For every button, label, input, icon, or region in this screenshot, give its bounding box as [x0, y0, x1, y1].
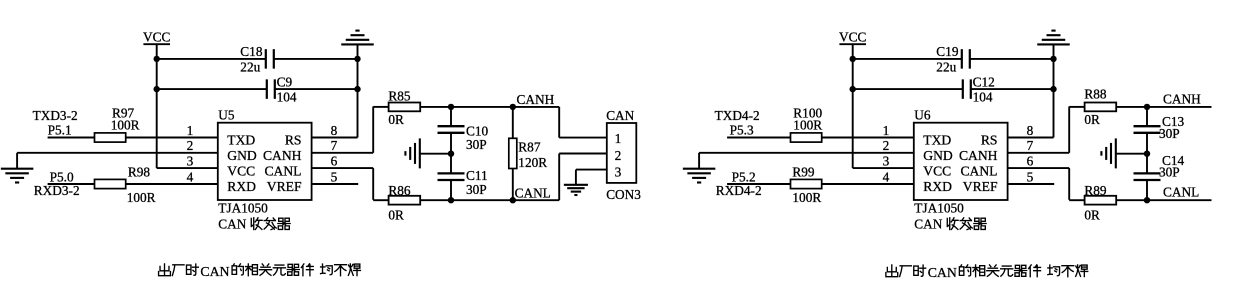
power port VCC (right) [839, 30, 866, 45]
svg-text:8: 8 [331, 123, 338, 138]
net label RXD3-2 [34, 183, 80, 198]
pin number 5 [331, 169, 338, 184]
svg-text:0R: 0R [388, 208, 404, 223]
junction CANH-C10 [448, 104, 454, 110]
svg-text:2: 2 [187, 138, 194, 153]
svg-text:R86: R86 [388, 183, 411, 198]
svg-text:TXD: TXD [227, 133, 255, 148]
ground (top, inverted earth) [341, 31, 374, 45]
svg-text:4: 4 [883, 169, 890, 184]
svg-text:100R: 100R [127, 190, 156, 205]
svg-text:GND: GND [227, 148, 257, 163]
svg-text:2: 2 [883, 138, 890, 153]
svg-text:P5.1: P5.1 [48, 123, 72, 138]
svg-text:7: 7 [331, 138, 338, 153]
pin number 2 [883, 138, 890, 153]
svg-text:CAN: CAN [218, 216, 246, 231]
wire pin3 VCC [157, 167, 218, 169]
caption right: 出厂时CAN的相关元器件 均不焊 [886, 265, 1088, 280]
ground (sideways earth, right filter) [1101, 138, 1115, 168]
svg-text:TJA1050: TJA1050 [914, 200, 964, 215]
net label RXD4-2 [716, 183, 762, 198]
junction CANH-R87 [510, 104, 516, 110]
svg-text:120R: 120R [518, 155, 547, 170]
connector pin 1 label [615, 131, 622, 146]
power port VCC (left) [143, 30, 170, 45]
wire CANL right circuit [1069, 199, 1211, 201]
resistor R85 0R [388, 88, 420, 127]
wire row1 right [970, 58, 1054, 60]
junction VCC-row1 [154, 56, 160, 62]
svg-text:RS: RS [285, 133, 302, 148]
svg-text:100R: 100R [793, 118, 822, 133]
svg-text:1: 1 [615, 131, 622, 146]
svg-text:VCC: VCC [227, 163, 255, 178]
connector CON3 body [607, 123, 637, 183]
wire pin2 GND [17, 153, 218, 169]
svg-text:CANH: CANH [263, 148, 302, 163]
capacitor C13 30P [1134, 107, 1185, 154]
wire CANH (pin7 to connector) [373, 106, 559, 108]
junction VCC-row1 [850, 56, 856, 62]
designator U5 [218, 108, 235, 123]
wire row1 left (C19 left lead) [853, 58, 962, 60]
svg-text:0R: 0R [1084, 208, 1100, 223]
net label TXD4-2 [715, 108, 760, 123]
junction gnd-row1 [354, 56, 360, 62]
wire pin7 CANH up [312, 107, 374, 153]
svg-text:7: 7 [1027, 138, 1034, 153]
svg-text:C9: C9 [277, 75, 293, 90]
wire connector pin1 (from CANH) [559, 107, 607, 138]
svg-text:GND: GND [923, 148, 953, 163]
resistor R88 0R [1084, 86, 1116, 127]
wire row1 left (C18 left lead) [157, 58, 266, 60]
svg-text:CON3: CON3 [606, 187, 641, 202]
pin number 7 [331, 138, 338, 153]
ground (left) [1, 169, 34, 183]
wire pin4 RXD net RXD3-2 [48, 183, 218, 185]
svg-text:RS: RS [981, 133, 998, 148]
svg-text:100R: 100R [111, 118, 140, 133]
wire ground rail vertical to pin 8 [357, 44, 359, 137]
pin names left column (TXD GND VCC RXD) [923, 133, 953, 195]
svg-text:VCC: VCC [923, 163, 951, 178]
svg-text:30P: 30P [1159, 126, 1180, 141]
connector value CON3 [606, 187, 641, 202]
wire row2 right [275, 88, 358, 90]
junction VCC-row2 [154, 86, 160, 92]
net label CANL (right) [1163, 185, 1199, 200]
wire connector pin3 (to ground) [576, 170, 607, 185]
junction C10-C11 midpoint [448, 151, 454, 157]
wire pin3 VCC [853, 167, 914, 169]
svg-text:VCC: VCC [143, 30, 170, 45]
svg-text:4: 4 [187, 169, 194, 184]
pin number 1 [187, 123, 194, 138]
junction gnd-row2 [1050, 86, 1056, 92]
wire pin4 RXD net RXD4-2 [727, 183, 914, 185]
pin number 5 [1027, 169, 1034, 184]
op IC U5 TJA1050 CAN transceiver body [218, 123, 312, 200]
svg-text:1: 1 [883, 123, 890, 138]
wire pin5 VREF stub [1008, 183, 1055, 185]
pin number 6 [331, 153, 338, 168]
pin number 3 [187, 153, 194, 168]
capacitor C19 22u [936, 44, 970, 74]
junction C13-C14 midpoint [1144, 151, 1150, 157]
wire connector pin2 (to CANL) [559, 154, 607, 201]
svg-text:3: 3 [187, 153, 194, 168]
pin number 2 [187, 138, 194, 153]
capacitor C11 30P [438, 154, 488, 201]
ground (top, inverted earth) [1037, 31, 1070, 45]
net label CANH [517, 92, 555, 107]
pin number 4 [883, 169, 890, 184]
junction gnd-row2 [354, 86, 360, 92]
wire row2 left (C9 left lead) [157, 88, 267, 90]
net label P5.2 [732, 170, 756, 185]
svg-text:C12: C12 [973, 75, 995, 90]
svg-text:VREF: VREF [267, 179, 302, 194]
svg-text:3: 3 [883, 153, 890, 168]
svg-text:VCC: VCC [839, 30, 866, 45]
wire pin6 CANL down [1008, 168, 1070, 200]
resistor R86 0R [388, 183, 420, 223]
connector designator CAN [606, 108, 634, 123]
wire midpoint to earth (right) [1116, 153, 1147, 155]
pin number 8 [1027, 123, 1034, 138]
junction CANL-R87 [510, 197, 516, 203]
capacitor C10 30P [438, 107, 489, 154]
svg-text:0R: 0R [1084, 112, 1100, 127]
wire VCC rail vertical [156, 44, 158, 168]
svg-text:U5: U5 [218, 108, 235, 123]
svg-text:TJA1050: TJA1050 [218, 200, 268, 215]
ground (connector, small) [564, 185, 588, 195]
wire pin1 TXD net TXD4-2 [727, 137, 914, 139]
svg-text:CANL: CANL [960, 163, 997, 178]
svg-text:CANL: CANL [1163, 185, 1199, 200]
svg-text:RXD: RXD [227, 179, 256, 194]
svg-text:RXD4-2: RXD4-2 [716, 183, 762, 198]
svg-text:22u: 22u [936, 60, 956, 75]
svg-text:30P: 30P [1159, 165, 1180, 180]
svg-text:30P: 30P [466, 182, 487, 197]
svg-text:22u: 22u [240, 60, 260, 75]
capacitor C18 22u [240, 44, 273, 74]
wire pin7 CANH up [1008, 107, 1070, 153]
pin number 6 [1027, 153, 1034, 168]
pin names left column (TXD GND VCC RXD) [227, 133, 257, 195]
svg-text:CAN: CAN [200, 264, 229, 279]
svg-text:VREF: VREF [963, 179, 998, 194]
resistor R99 100R [791, 164, 822, 205]
net label P5.1 [48, 123, 72, 138]
svg-text:CANL: CANL [264, 163, 301, 178]
svg-text:TXD4-2: TXD4-2 [715, 108, 760, 123]
svg-text:U6: U6 [914, 108, 931, 123]
svg-text:CANH: CANH [517, 92, 555, 107]
wire midpoint to earth [420, 153, 451, 155]
svg-text:30P: 30P [466, 137, 487, 152]
svg-text:R89: R89 [1084, 183, 1107, 198]
part value TJA1050 [914, 200, 964, 215]
caption left: 出厂时CAN的相关元器件 均不焊 [159, 264, 361, 279]
svg-text:TXD3-2: TXD3-2 [33, 108, 78, 123]
designator U6 [914, 108, 931, 123]
pin names right column (RS CANH CANL VREF) [959, 133, 998, 195]
wire VCC rail vertical [852, 44, 854, 168]
svg-text:0R: 0R [388, 112, 404, 127]
svg-text:5: 5 [1027, 169, 1034, 184]
svg-text:P5.3: P5.3 [730, 123, 754, 138]
svg-text:CANL: CANL [515, 185, 551, 200]
svg-text:R98: R98 [128, 164, 151, 179]
resistor R89 0R [1084, 183, 1116, 223]
junction CANL-C14 [1144, 197, 1150, 203]
pin names right column (RS CANH CANL VREF) [263, 133, 302, 195]
wire pin2 GND [699, 153, 914, 169]
svg-text:C18: C18 [240, 44, 263, 59]
svg-text:5: 5 [331, 169, 338, 184]
svg-text:R88: R88 [1084, 86, 1107, 101]
pin number 7 [1027, 138, 1034, 153]
svg-text:CANH: CANH [959, 148, 998, 163]
wire ground rail vertical to pin 8 [1053, 44, 1055, 137]
svg-text:6: 6 [1027, 153, 1034, 168]
capacitor C12 104 [963, 75, 995, 105]
svg-text:RXD3-2: RXD3-2 [34, 183, 80, 198]
resistor R98 100R [95, 164, 156, 205]
wire row2 right [971, 88, 1054, 90]
op IC U6 TJA1050 CAN transceiver body [914, 123, 1008, 200]
svg-text:CAN: CAN [606, 108, 634, 123]
svg-text:RXD: RXD [923, 179, 952, 194]
wire pin5 VREF stub [312, 183, 359, 185]
net label CANL [515, 185, 551, 200]
junction gnd-row1 [1050, 56, 1056, 62]
wire pin8 RS to ground rail [312, 137, 358, 139]
part value CAN transceiver (CAN收发器) [218, 216, 290, 231]
svg-text:C19: C19 [936, 44, 959, 59]
capacitor C14 30P [1134, 153, 1185, 200]
wire pin6 CANL down [312, 168, 374, 200]
svg-text:R87: R87 [518, 140, 541, 155]
net label CANH (right) [1163, 92, 1201, 107]
junction CANL-C11 [448, 197, 454, 203]
pin number 1 [883, 123, 890, 138]
junction CANH-C13 [1144, 104, 1150, 110]
net label TXD3-2 [33, 108, 78, 123]
part value CAN transceiver (CAN收发器) [914, 216, 986, 231]
wire CANL (pin6 to connector) [373, 199, 559, 201]
net label P5.3 [730, 123, 754, 138]
svg-text:CANH: CANH [1163, 92, 1201, 107]
connector pin 2 label [615, 148, 622, 163]
wire row1 right [274, 58, 358, 60]
svg-text:R85: R85 [388, 88, 411, 103]
resistor R97 100R [95, 105, 140, 142]
svg-text:3: 3 [615, 164, 622, 179]
wire pin8 RS to ground rail [1008, 137, 1054, 139]
pin number 8 [331, 123, 338, 138]
pin number 3 [883, 153, 890, 168]
svg-text:1: 1 [187, 123, 194, 138]
svg-text:100R: 100R [792, 190, 821, 205]
net label P5.0 [50, 170, 74, 185]
svg-text:R99: R99 [792, 164, 815, 179]
ground (sideways earth, mid filter) [405, 138, 419, 168]
svg-text:CAN: CAN [914, 216, 942, 231]
wire CANH right circuit [1069, 106, 1211, 108]
pin number 4 [187, 169, 194, 184]
wire row2 left (C12 left lead) [853, 88, 963, 90]
svg-text:104: 104 [973, 90, 993, 105]
resistor R87 120R termination [509, 107, 547, 200]
connector pin 3 label [615, 164, 622, 179]
part value TJA1050 [218, 200, 268, 215]
svg-text:TXD: TXD [923, 133, 951, 148]
svg-text:6: 6 [331, 153, 338, 168]
ground (left) [683, 169, 716, 183]
wire pin1 TXD net TXD3-2 [48, 137, 218, 139]
svg-text:104: 104 [277, 90, 297, 105]
capacitor C9 104 [267, 75, 297, 105]
svg-text:CAN: CAN [928, 265, 957, 280]
svg-text:8: 8 [1027, 123, 1034, 138]
junction VCC-row2 [850, 86, 856, 92]
resistor R100 100R [791, 105, 823, 142]
svg-text:2: 2 [615, 148, 622, 163]
